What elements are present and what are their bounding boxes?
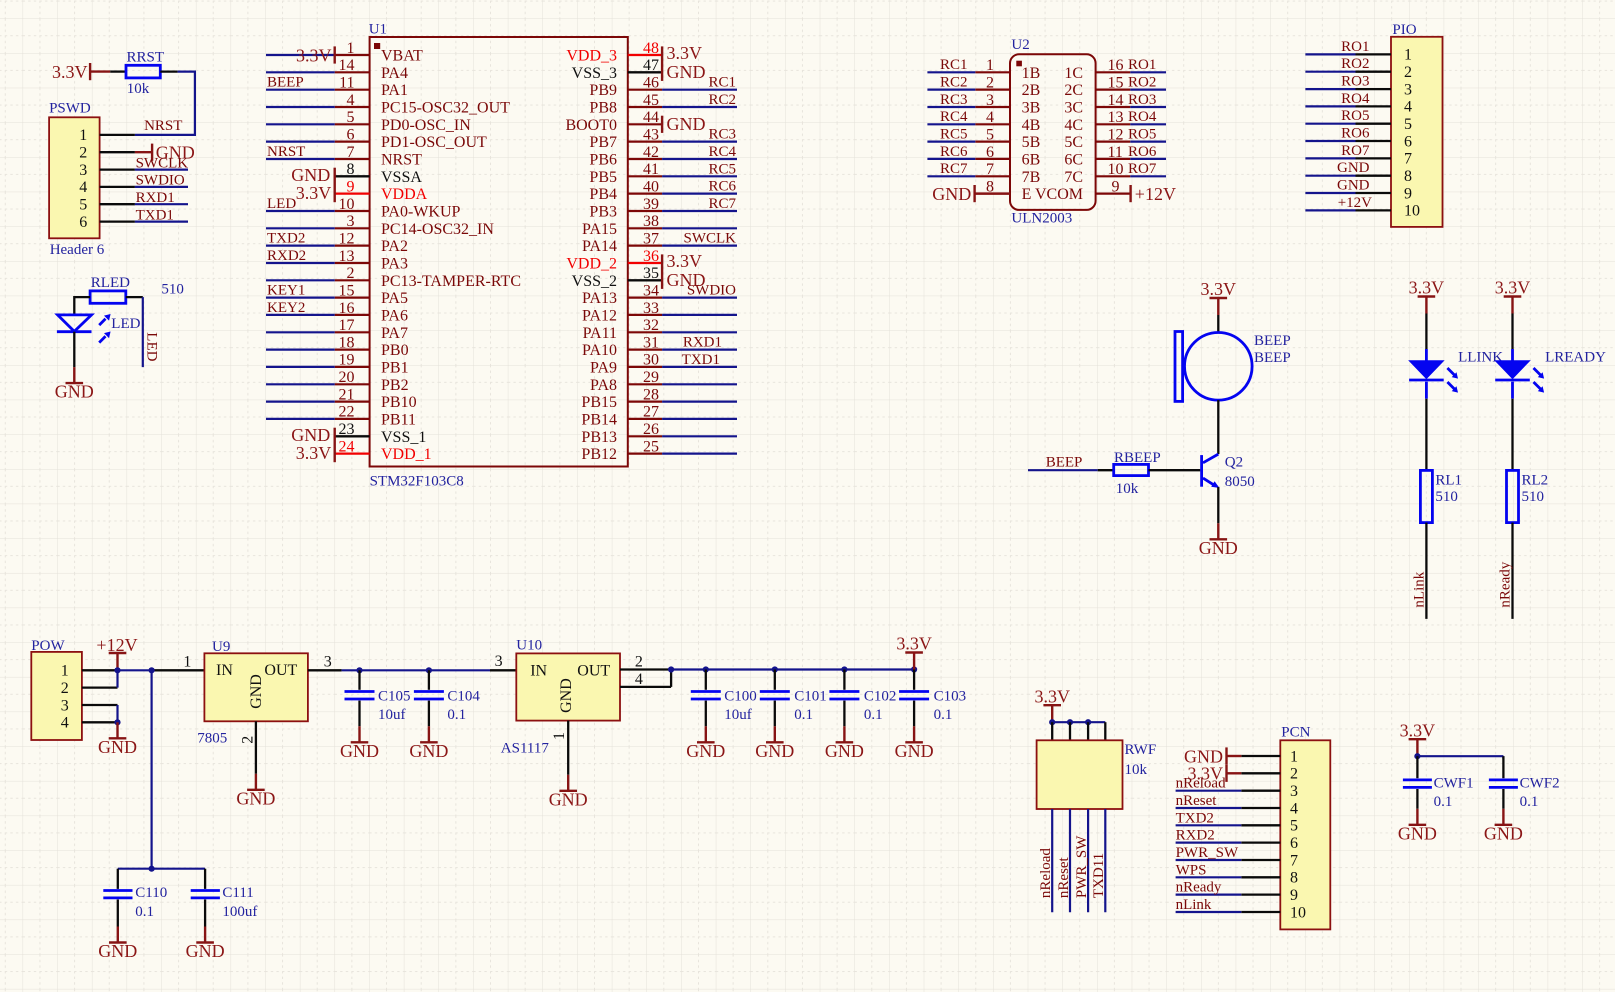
svg-text:BEEP: BEEP: [1254, 350, 1291, 366]
pin U1.30 PA9: [590, 352, 662, 377]
wire 5V rail U9 to U10: [342, 669, 517, 671]
svg-text:9: 9: [1290, 887, 1298, 904]
wire POW.1 to POW.2: [116, 670, 118, 687]
svg-text:10k: 10k: [1125, 762, 1148, 778]
svg-text:5: 5: [1290, 818, 1298, 835]
svg-text:nReload: nReload: [1038, 848, 1054, 898]
wire PIO.4 RO4: [1305, 105, 1355, 107]
svg-text:4: 4: [79, 179, 87, 196]
svg-text:U10: U10: [516, 637, 542, 653]
svg-text:0.1: 0.1: [794, 707, 813, 723]
svg-text:RC2: RC2: [708, 92, 736, 108]
svg-text:36: 36: [643, 248, 659, 265]
svg-text:PC13-TAMPER-RTC: PC13-TAMPER-RTC: [381, 273, 521, 290]
svg-text:22: 22: [339, 404, 355, 421]
pin PCN.9: [1241, 887, 1298, 904]
capacitor C111 100uf: [191, 885, 258, 920]
svg-text:10: 10: [1404, 203, 1420, 220]
svg-text:NRST: NRST: [144, 118, 182, 134]
resistor RL2 510: [1507, 470, 1549, 522]
svg-text:GND: GND: [932, 184, 971, 204]
wire PIO.1 RO1: [1305, 53, 1355, 55]
power +12V at U2.9: [1131, 184, 1176, 204]
svg-text:1B: 1B: [1022, 65, 1041, 82]
wire RL2 to nReady: [1511, 523, 1513, 619]
svg-text:3.3V: 3.3V: [1201, 279, 1237, 299]
svg-text:RO5: RO5: [1341, 108, 1369, 124]
wire C101 to GND: [774, 701, 776, 727]
wire PCN.8 WPS: [1176, 876, 1242, 878]
svg-text:PB13: PB13: [581, 429, 617, 446]
pin U1.19 PB1: [335, 352, 409, 377]
wire PCN.9 nReady: [1176, 893, 1242, 895]
wire C104 pin: [428, 670, 430, 690]
pin U2.10 RO7: [1096, 161, 1131, 178]
junction rail x=705.8: [703, 666, 709, 672]
svg-text:34: 34: [643, 282, 659, 299]
svg-text:RC6: RC6: [708, 179, 736, 195]
svg-text:nReload: nReload: [1176, 776, 1226, 792]
svg-text:RXD1: RXD1: [683, 335, 722, 351]
svg-text:BEEP: BEEP: [1046, 455, 1083, 471]
svg-text:C104: C104: [447, 689, 480, 705]
svg-text:SWDIO: SWDIO: [136, 173, 185, 189]
wire RL1 to nLink: [1425, 523, 1427, 619]
pin PCN.5: [1241, 818, 1298, 835]
wire BEEP to RBEEP: [1028, 469, 1114, 471]
svg-text:BOOT0: BOOT0: [565, 117, 617, 134]
junction +12V: [114, 667, 120, 673]
junction rail x=914.1: [911, 666, 917, 672]
svg-text:4C: 4C: [1064, 117, 1083, 134]
wire PCN.7 PWR_SW: [1176, 859, 1242, 861]
svg-text:29: 29: [643, 369, 659, 386]
svg-text:42: 42: [643, 144, 659, 161]
wire RC5 to U2: [927, 141, 975, 143]
svg-text:45: 45: [643, 92, 659, 109]
wire PSWD.3 SWCLK: [135, 169, 188, 171]
svg-text:RC4: RC4: [940, 109, 968, 125]
wire PIO.2 RO2: [1305, 71, 1355, 73]
wire buzzer to Q2 collector: [1217, 400, 1219, 454]
svg-text:GND: GND: [755, 741, 794, 761]
svg-text:PA11: PA11: [583, 325, 617, 342]
svg-text:14: 14: [1108, 92, 1124, 109]
svg-text:17: 17: [339, 317, 355, 334]
svg-text:LED: LED: [267, 196, 296, 212]
svg-text:16: 16: [1108, 57, 1124, 74]
wire C103 to GND: [913, 701, 915, 727]
svg-text:40: 40: [643, 178, 659, 195]
pin U1.22 PB11: [335, 404, 416, 429]
pin U1.45 PB8: [589, 92, 662, 117]
wire CWF2 top pin: [1502, 756, 1504, 778]
transistor Q2 8050: [1202, 454, 1255, 490]
pin PIO.9: [1356, 185, 1413, 202]
power 3.3V at rail end: [896, 634, 932, 670]
pin U2.1 1B: [975, 57, 1040, 82]
svg-text:27: 27: [643, 404, 659, 421]
svg-text:OUT: OUT: [577, 663, 610, 680]
regulator U9 7805: [197, 639, 308, 747]
pin U1.7 NRST: [335, 144, 422, 169]
wire RWF.6 nReset: [1069, 809, 1071, 912]
wire RC1 to U2: [927, 71, 975, 73]
pin PCN.7: [1241, 852, 1298, 869]
wire C101 pin: [774, 670, 776, 690]
svg-text:+12V: +12V: [1135, 184, 1176, 204]
svg-text:510: 510: [1435, 489, 1458, 505]
svg-text:GND: GND: [186, 941, 225, 961]
LED LLINK: [1409, 349, 1458, 399]
svg-text:7805: 7805: [197, 731, 227, 747]
pin U1.9 VDDA: [335, 178, 428, 203]
svg-text:ULN2003: ULN2003: [1011, 211, 1072, 227]
svg-text:VDD_3: VDD_3: [566, 48, 617, 65]
svg-text:PB1: PB1: [381, 359, 409, 376]
buzzer BEEP: [1175, 332, 1291, 402]
svg-text:3.3V: 3.3V: [1034, 686, 1070, 706]
svg-text:15: 15: [339, 282, 355, 299]
ground GND below C104: [409, 726, 448, 761]
connector PIO: [1391, 22, 1443, 227]
svg-text:1: 1: [1290, 748, 1298, 765]
junction C104: [426, 667, 432, 673]
pin PSWD.2: [79, 145, 135, 162]
svg-text:0.1: 0.1: [934, 707, 953, 723]
svg-text:41: 41: [643, 161, 659, 178]
svg-text:43: 43: [643, 126, 659, 143]
svg-text:nReset: nReset: [1056, 856, 1072, 898]
ground GND below C101: [755, 726, 794, 761]
ground GND below U10: [549, 775, 588, 810]
wire U1.45: [662, 106, 737, 108]
wire PCN.3 nReload: [1176, 790, 1242, 792]
svg-text:GND: GND: [549, 789, 588, 809]
svg-text:VDD_2: VDD_2: [566, 256, 617, 273]
resistor RLED 510: [90, 275, 184, 303]
wire RWF.5 nReload: [1051, 809, 1053, 912]
svg-text:10: 10: [1108, 161, 1124, 178]
pin PIO.2: [1356, 64, 1413, 81]
svg-text:STM32F103C8: STM32F103C8: [370, 474, 464, 490]
svg-text:PA9: PA9: [590, 359, 617, 376]
svg-text:28: 28: [643, 386, 659, 403]
svg-text:PC15-OSC32_OUT: PC15-OSC32_OUT: [381, 100, 510, 117]
svg-text:510: 510: [161, 281, 184, 297]
wire U1.39: [662, 210, 737, 212]
svg-text:5: 5: [79, 197, 87, 214]
pin U2.9 VCOM: [1096, 178, 1131, 195]
svg-text:9: 9: [1112, 178, 1120, 195]
wire U1.33: [662, 314, 737, 316]
svg-text:RXD2: RXD2: [1176, 828, 1215, 844]
svg-text:PA6: PA6: [381, 307, 408, 324]
svg-text:1: 1: [551, 732, 568, 740]
wire U1.46: [662, 89, 737, 91]
svg-text:BEEP: BEEP: [1254, 333, 1291, 349]
svg-text:PB12: PB12: [581, 446, 617, 463]
svg-text:IN: IN: [216, 662, 233, 679]
capacitor C100 10uf: [691, 689, 757, 724]
pin U1.42 PB6: [589, 144, 662, 169]
svg-text:38: 38: [643, 213, 659, 230]
wire U1.4: [266, 106, 335, 108]
wire CWF1 top pin: [1416, 756, 1418, 778]
wire PIO.7 RO7: [1305, 157, 1355, 159]
pin U2.13 RO4: [1096, 109, 1131, 126]
svg-text:PD1-OSC_OUT: PD1-OSC_OUT: [381, 134, 487, 151]
svg-text:5: 5: [1404, 116, 1412, 133]
ground GND below LED: [55, 367, 94, 402]
junction GND: [114, 719, 120, 725]
wire U1.7: [266, 158, 335, 160]
wire CWF2 to GND: [1502, 789, 1504, 809]
pin U1.20 PB2: [335, 369, 409, 394]
svg-text:nReset: nReset: [1176, 793, 1218, 809]
svg-text:C110: C110: [135, 885, 167, 901]
wire PIO.8 GND: [1305, 175, 1355, 177]
pin U1.47 VSS_3: [572, 57, 662, 82]
capacitor C101 0.1: [760, 689, 827, 724]
svg-text:RO6: RO6: [1341, 126, 1370, 142]
svg-text:PWR_SW: PWR_SW: [1176, 845, 1239, 861]
pin U1.11 PA1: [335, 75, 408, 100]
svg-text:4: 4: [1404, 99, 1412, 116]
pin U1.8 VSSA: [335, 161, 423, 186]
pin U1.12 PA2: [335, 230, 408, 255]
svg-text:PA2: PA2: [381, 238, 408, 255]
svg-text:19: 19: [339, 352, 355, 369]
svg-text:10: 10: [1290, 904, 1306, 921]
wire RC4 to U2: [927, 123, 975, 125]
junction rail x=844.4: [841, 666, 847, 672]
capacitor C105 10uf: [345, 689, 411, 724]
wire RO1 from U2: [1130, 71, 1166, 73]
svg-text:nLink: nLink: [1411, 571, 1427, 607]
power GND at U2.8: [932, 184, 1010, 204]
svg-text:10k: 10k: [127, 81, 150, 97]
wire U1.31: [662, 349, 737, 351]
svg-text:GND: GND: [667, 114, 706, 134]
svg-text:20: 20: [339, 369, 355, 386]
svg-text:RO1: RO1: [1128, 57, 1156, 73]
pin PSWD.4: [79, 179, 135, 196]
wire C102 to GND: [843, 701, 845, 727]
wire U1.13: [266, 262, 335, 264]
pin U1.25 PB12: [581, 438, 662, 463]
svg-text:PB6: PB6: [589, 152, 617, 169]
svg-text:12: 12: [1108, 126, 1124, 143]
power GND at PSWD.2: [135, 143, 195, 163]
wire C104 to GND: [428, 701, 430, 727]
svg-text:3.3V: 3.3V: [1409, 278, 1445, 298]
svg-text:0.1: 0.1: [135, 904, 154, 920]
svg-text:PCN: PCN: [1281, 724, 1310, 740]
ground GND below C105: [340, 726, 379, 761]
wire U1.12: [266, 245, 335, 247]
svg-text:4: 4: [1290, 800, 1298, 817]
svg-text:7: 7: [1290, 852, 1298, 869]
pin U1.27 PB14: [581, 404, 662, 429]
pin U1.38 PA15: [582, 213, 662, 238]
ground GND below Q2: [1199, 523, 1238, 558]
svg-text:RC1: RC1: [940, 57, 968, 73]
connector POW: [31, 638, 82, 740]
svg-text:8: 8: [1404, 168, 1412, 185]
junction U10 out: [668, 666, 674, 672]
svg-text:9: 9: [1404, 185, 1412, 202]
pin PIO.10: [1356, 203, 1421, 220]
svg-text:GND: GND: [667, 270, 706, 290]
connector PSWD Header 6: [49, 101, 105, 259]
svg-text:PWR_SW: PWR_SW: [1074, 835, 1090, 898]
svg-text:LED: LED: [144, 332, 160, 361]
wire U1.37: [662, 245, 737, 247]
pin U1.24 VDD_1: [335, 438, 432, 463]
power 3.3V at RRST: [52, 62, 110, 82]
resistor RRST 10k: [110, 50, 177, 98]
wire 3.3V to buzzer: [1217, 315, 1219, 333]
svg-text:GND: GND: [895, 741, 934, 761]
svg-text:23: 23: [339, 421, 355, 438]
junction rail/C110 branch: [149, 667, 155, 673]
pin U1.17 PA7: [335, 317, 408, 342]
svg-text:E: E: [1022, 186, 1032, 203]
svg-text:3.3V: 3.3V: [1495, 278, 1531, 298]
svg-text:48: 48: [643, 40, 659, 57]
svg-text:RLED: RLED: [91, 275, 130, 291]
svg-text:3.3V: 3.3V: [52, 62, 88, 82]
wire PIO.5 RO5: [1305, 123, 1355, 125]
svg-text:RC7: RC7: [940, 161, 968, 177]
svg-text:VDD_1: VDD_1: [381, 446, 432, 463]
pin PCN.6: [1241, 835, 1298, 852]
svg-text:VDDA: VDDA: [381, 186, 428, 203]
svg-text:1: 1: [986, 57, 994, 74]
wire LED to RL1: [1425, 399, 1427, 471]
pin U10.2 OUT: [620, 654, 671, 671]
svg-text:RC6: RC6: [940, 144, 968, 160]
svg-text:RC3: RC3: [708, 127, 736, 143]
pin U1.44 BOOT0: [565, 109, 662, 134]
pin U1.3 PC14-OSC32_IN: [335, 213, 495, 238]
svg-text:TXD11: TXD11: [1091, 853, 1107, 898]
svg-text:3.3V: 3.3V: [896, 634, 932, 654]
svg-text:C103: C103: [934, 689, 967, 705]
wire PCN.4 nReset: [1176, 807, 1242, 809]
svg-text:CWF1: CWF1: [1434, 776, 1474, 792]
wire RC6 to U2: [927, 158, 975, 160]
wire PIO.10 +12V: [1305, 209, 1355, 211]
svg-text:PB0: PB0: [381, 342, 409, 359]
svg-text:8: 8: [347, 161, 355, 178]
svg-text:C102: C102: [864, 689, 897, 705]
pin U1.29 PA8: [590, 369, 662, 394]
svg-text:PA7: PA7: [381, 325, 408, 342]
pin U1.26 PB13: [581, 421, 662, 446]
wire RLED right / net LED: [126, 297, 143, 367]
wire RC7 to U2: [927, 175, 975, 177]
svg-text:C100: C100: [724, 689, 757, 705]
svg-text:2B: 2B: [1022, 82, 1041, 99]
svg-text:39: 39: [643, 196, 659, 213]
wire C100 to GND: [705, 701, 707, 727]
svg-text:GND: GND: [248, 674, 265, 709]
svg-text:PA10: PA10: [582, 342, 617, 359]
wire U1.22: [266, 418, 335, 420]
svg-text:3.3V: 3.3V: [1400, 720, 1436, 740]
wire U1.3: [266, 227, 335, 229]
svg-text:PB10: PB10: [381, 394, 417, 411]
capacitor C104 0.1: [414, 689, 481, 724]
wire U1.10: [266, 210, 335, 212]
capacitor CWF1 0.1: [1403, 776, 1474, 810]
wire C111 to GND: [204, 900, 206, 927]
svg-text:2: 2: [1290, 766, 1298, 783]
wire 3.3V bus over RWF: [1052, 721, 1105, 723]
svg-text:GND: GND: [55, 382, 94, 402]
svg-text:7: 7: [347, 144, 355, 161]
wire PSWD.4 SWDIO: [135, 186, 188, 188]
pin U1.1 VBAT: [335, 40, 423, 65]
wire 3.3V to LED LLINK: [1425, 314, 1427, 350]
svg-text:3.3V: 3.3V: [296, 45, 332, 65]
svg-text:PD0-OSC_IN: PD0-OSC_IN: [381, 117, 471, 134]
wire PSWD.5 RXD1: [135, 203, 188, 205]
ground GND below POW: [98, 722, 137, 757]
svg-text:10: 10: [339, 196, 355, 213]
svg-text:RO4: RO4: [1341, 91, 1370, 107]
wire U1.32: [662, 331, 737, 333]
svg-text:7C: 7C: [1064, 169, 1083, 186]
svg-text:2: 2: [635, 654, 643, 671]
wire RO6 from U2: [1130, 158, 1166, 160]
pin PSWD.5: [79, 197, 135, 214]
svg-text:8050: 8050: [1225, 474, 1255, 490]
wire PCN.6 RXD2: [1176, 841, 1242, 843]
wire U1.29: [662, 383, 737, 385]
svg-text:100uf: 100uf: [222, 904, 257, 920]
svg-text:GND: GND: [98, 941, 137, 961]
svg-text:RC2: RC2: [940, 74, 968, 90]
svg-text:RL2: RL2: [1522, 473, 1549, 489]
svg-text:GND: GND: [291, 165, 330, 185]
svg-text:WPS: WPS: [1176, 862, 1207, 878]
wire U1.17: [266, 331, 335, 333]
pin U2.12 RO5: [1096, 126, 1131, 143]
wire U1.15: [266, 297, 335, 299]
svg-text:TXD2: TXD2: [267, 231, 305, 247]
junction CWF1: [1414, 753, 1420, 759]
wire RC2 to U2: [927, 88, 975, 90]
svg-text:7: 7: [1404, 151, 1412, 168]
wire PIO.3 RO3: [1305, 88, 1355, 90]
pin U2.3 3B: [975, 92, 1040, 117]
svg-text:31: 31: [643, 334, 659, 351]
svg-text:GND: GND: [667, 62, 706, 82]
svg-text:PA12: PA12: [582, 307, 617, 324]
resistor network RWF 10k: [1037, 740, 1157, 809]
svg-text:TXD1: TXD1: [136, 207, 174, 223]
ground GND below CWF1: [1398, 809, 1437, 844]
ground GND below C111: [186, 927, 225, 962]
wire U1.16: [266, 314, 335, 316]
pin PIO.3: [1356, 81, 1413, 98]
pin U1.4 PC15-OSC32_OUT: [335, 92, 510, 117]
svg-text:1: 1: [79, 127, 87, 144]
svg-text:4: 4: [61, 715, 69, 732]
